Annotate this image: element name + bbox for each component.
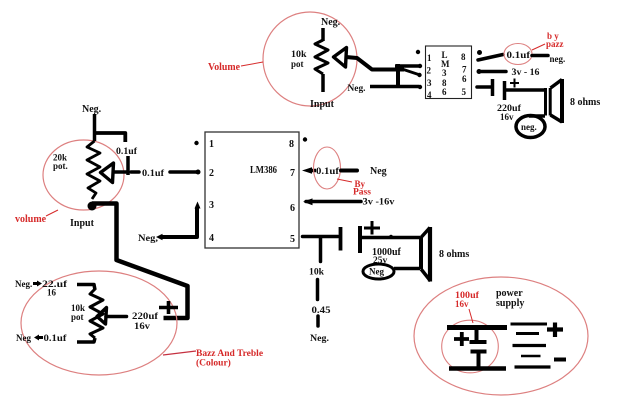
label Bazz And Treble (Colour) red [163, 349, 263, 369]
capacitor bypass 0.1uf on pin 7 (red circled) [302, 147, 357, 189]
wire pin 5 out [303, 235, 339, 239]
op-amp U1 LM386 (small) [426, 46, 472, 100]
svg-text:1: 1 [209, 139, 214, 150]
svg-text:0.1uf: 0.1uf [507, 50, 532, 60]
label 220uf 16v [497, 103, 522, 122]
wire cap to bottom speaker [362, 236, 420, 240]
svg-text:8 ohms: 8 ohms [570, 97, 600, 108]
speaker SP2 8 ohms [421, 227, 431, 282]
capacitor plate T bar [126, 156, 130, 175]
svg-text:1: 1 [427, 53, 432, 63]
node pin 8 dot [477, 50, 482, 55]
svg-text:5: 5 [462, 87, 467, 97]
svg-text:0.1uf: 0.1uf [44, 333, 68, 343]
svg-text:neg.: neg. [521, 122, 537, 132]
node bump on wire [389, 235, 393, 239]
svg-text:7: 7 [290, 168, 295, 179]
wire pin 6 supply [303, 198, 361, 205]
svg-text:16v: 16v [455, 299, 469, 309]
wire cap to speaker [505, 88, 545, 92]
wiper arrow of 10k pot [334, 48, 347, 68]
plus sign [454, 332, 469, 346]
node pin 1 dot [416, 50, 420, 54]
label volume (red) [15, 210, 58, 225]
potentiometer 20k pot [53, 141, 100, 199]
label Volume [208, 62, 263, 73]
big red ellipse power supply [414, 277, 588, 395]
capacitor 220uf 16v label [132, 311, 159, 331]
svg-text:Input: Input [310, 99, 335, 110]
svg-text:Neg,: Neg, [138, 233, 158, 243]
wire from Neg down to pot [93, 114, 97, 141]
svg-text:Neg.: Neg. [310, 333, 329, 343]
wire speaker bottom return [394, 267, 420, 271]
label 100uf 16v (red) [455, 291, 480, 323]
wire into pin 2 [170, 170, 197, 174]
red circle around 20k pot [43, 140, 124, 210]
speaker SP1 8 ohms [546, 79, 563, 123]
svg-text:Neg.: Neg. [321, 17, 341, 28]
node pin 3 dot [417, 73, 421, 77]
svg-text:2: 2 [209, 168, 214, 179]
label power supply [496, 288, 524, 309]
node pin 1 dot [194, 141, 198, 145]
svg-text:(Colour): (Colour) [196, 358, 231, 369]
svg-text:4: 4 [209, 233, 214, 244]
capacitor 220uf 16v plate 2 [503, 81, 507, 100]
svg-text:neg.: neg. [550, 54, 566, 64]
capacitor 1000uf plate 1 [339, 227, 343, 251]
svg-text:0.1uf: 0.1uf [316, 166, 340, 176]
svg-text:16v: 16v [134, 321, 151, 331]
red circle around 10k pot [263, 12, 357, 106]
wire branch to 0.1uf cap [95, 133, 126, 142]
wire speaker bottom [529, 114, 545, 118]
svg-text:Neg: Neg [370, 166, 387, 177]
svg-text:3: 3 [442, 68, 447, 78]
capacitor 220uf plus plates [159, 301, 178, 314]
label 1000uf 25v [372, 247, 402, 266]
node pin 2 dot [418, 64, 422, 68]
capacitor 22.uf 16 label [42, 279, 68, 298]
red ellipse around bass/treble [21, 271, 177, 375]
svg-text:0.45: 0.45 [312, 305, 332, 315]
svg-text:volume: volume [15, 214, 47, 225]
wire input run down to bass/treble cap [92, 204, 188, 319]
svg-text:pot: pot [291, 59, 304, 69]
label b y pazz (red) [532, 31, 564, 50]
svg-text:Neg.: Neg. [82, 104, 102, 115]
wire top lead of 10k pot [77, 285, 95, 291]
wire stub after plate [131, 170, 139, 174]
node pin 4 dot [418, 85, 422, 89]
svg-text:LM386: LM386 [250, 164, 277, 176]
svg-text:2: 2 [427, 66, 432, 76]
wire pin 3 / pin 4 to Neg [156, 202, 201, 241]
svg-text:16: 16 [47, 288, 57, 298]
svg-text:Neg: Neg [369, 267, 384, 277]
svg-text:supply: supply [496, 298, 524, 309]
svg-text:Input: Input [70, 218, 95, 229]
svg-text:Neg.: Neg. [348, 83, 366, 93]
svg-text:6: 6 [290, 203, 295, 214]
node Neg. with arrow to 22uf [15, 279, 42, 289]
svg-text:10k: 10k [291, 49, 307, 59]
wire wiper to plate [114, 170, 128, 174]
wire wiper to pin bus [346, 57, 404, 70]
node pin 7 dot [477, 69, 482, 74]
battery symbol [511, 323, 567, 368]
wire zobel stub [319, 237, 323, 262]
svg-text:0.1uf: 0.1uf [116, 146, 138, 156]
svg-text:7: 7 [462, 65, 467, 75]
svg-text:Bazz And Treble: Bazz And Treble [196, 349, 263, 359]
wire pin 8 diagonal [478, 55, 503, 61]
svg-text:3: 3 [427, 78, 432, 88]
node pin 8 dot [303, 137, 307, 141]
potentiometer 10k pot (bass) [71, 289, 103, 338]
svg-text:6: 6 [442, 87, 447, 97]
wire zobel mid [316, 280, 320, 300]
capacitor 1000uf plate 2 with plus [360, 221, 380, 253]
wire zobel bottom [316, 316, 320, 326]
wire bottom lead [77, 338, 95, 342]
wire top rail [447, 325, 507, 330]
wire to pin 2 [395, 64, 419, 68]
wire diagonal to pin 3 [404, 70, 419, 75]
node Input junction dot [88, 202, 97, 211]
wire bottom rail [449, 366, 506, 371]
svg-text:3: 3 [209, 200, 214, 211]
capacitor 220uf 16v plate 1 [491, 79, 495, 96]
svg-text:pot.: pot. [53, 161, 68, 171]
wire pin 7 supply [480, 70, 506, 74]
wire bottom lead of pot [321, 74, 325, 92]
svg-text:220uf: 220uf [132, 311, 159, 321]
svg-text:Neg: Neg [16, 333, 31, 343]
svg-text:3v - 16: 3v - 16 [512, 67, 541, 77]
wire pin 5 to cap [477, 85, 491, 89]
wiper arrow of 20k pot [101, 163, 114, 183]
wire vertical bus into small IC [396, 64, 400, 87]
svg-text:8 ohms: 8 ohms [439, 249, 469, 260]
svg-text:8: 8 [289, 139, 294, 150]
svg-text:pot: pot [71, 312, 84, 322]
wire top lead of pot [321, 28, 325, 41]
small red circle around cap [442, 320, 499, 373]
wire Neg to pin 4 [370, 85, 419, 89]
node Neg circled (speaker return) [363, 264, 394, 279]
capacitor 100uf bottom plate [471, 352, 487, 367]
svg-text:8: 8 [461, 52, 466, 62]
svg-text:Volume: Volume [208, 62, 241, 73]
svg-text:10k: 10k [309, 267, 324, 277]
wire cap to neg [532, 54, 548, 58]
node Neg with arrow and 0.1uf [16, 333, 68, 343]
label By Pass (red) [337, 179, 371, 198]
wire wiper out [106, 315, 127, 319]
plus sign [510, 79, 519, 88]
node neg. circled (speaker return) [516, 116, 545, 138]
svg-text:0.1uf: 0.1uf [142, 168, 165, 178]
svg-text:4: 4 [427, 90, 432, 100]
svg-text:Neg.: Neg. [15, 279, 32, 289]
svg-text:pazz: pazz [546, 39, 564, 49]
svg-text:5: 5 [290, 234, 295, 245]
op-amp U2 LM386 (main) [205, 132, 299, 248]
svg-text:6: 6 [462, 74, 467, 84]
svg-text:16v: 16v [500, 112, 514, 122]
capacitor 100uf top plate [470, 327, 487, 342]
potentiometer 10k pot (volume) [291, 40, 328, 74]
svg-text:3v -16v: 3v -16v [363, 197, 396, 207]
wiper arrow of bass pot [97, 308, 107, 325]
capacitor C bypass 0.1uf (circled) [504, 44, 532, 65]
